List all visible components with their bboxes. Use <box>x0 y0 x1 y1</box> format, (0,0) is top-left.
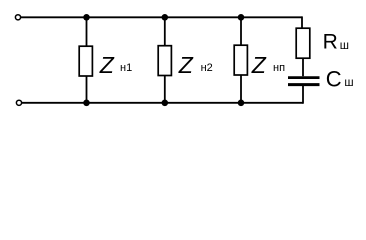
terminal: top input <box>15 15 20 20</box>
svg-text:н1: н1 <box>120 62 132 74</box>
impedance Z_n2 box <box>158 46 171 76</box>
svg-text:C: C <box>326 67 342 92</box>
svg-text:R: R <box>323 31 338 54</box>
node: junction bottom 1 <box>83 100 90 107</box>
node: junction top 1 <box>83 14 90 21</box>
wire: Z_n2 bottom lead <box>164 76 166 104</box>
wire: Z_np top lead <box>240 17 242 46</box>
capacitor C_sh bottom plate <box>288 83 320 86</box>
wire: Z_n1 top lead <box>86 17 88 47</box>
wire: Z_n1 bottom lead <box>86 76 88 103</box>
svg-text:н2: н2 <box>201 62 213 74</box>
node: junction bottom 3 <box>238 100 245 107</box>
capacitor C_sh top plate <box>288 76 320 79</box>
svg-text:Z: Z <box>99 52 115 78</box>
impedance Z_np box <box>234 45 247 75</box>
wire: C_sh bottom lead <box>302 86 304 104</box>
svg-text:ш: ш <box>344 77 353 89</box>
resistor R_sh box <box>296 28 310 58</box>
wire: R_sh top lead <box>301 16 303 28</box>
svg-text:Z: Z <box>251 52 267 78</box>
svg-text:Z: Z <box>178 52 194 78</box>
node: junction top 2 <box>162 14 169 21</box>
wire: R_sh to C_sh lead <box>302 58 304 76</box>
wire: Z_np bottom lead <box>240 75 242 103</box>
svg-text:ш: ш <box>340 40 349 52</box>
wire: top rail <box>21 16 302 18</box>
svg-text:нп: нп <box>273 62 285 74</box>
wire: Z_n2 top lead <box>164 17 166 46</box>
impedance Z_n1 box <box>79 46 92 76</box>
node: junction bottom 2 <box>162 100 169 107</box>
node: junction top 3 <box>238 14 245 21</box>
wire: bottom rail <box>22 102 303 104</box>
terminal: bottom input <box>16 100 21 105</box>
